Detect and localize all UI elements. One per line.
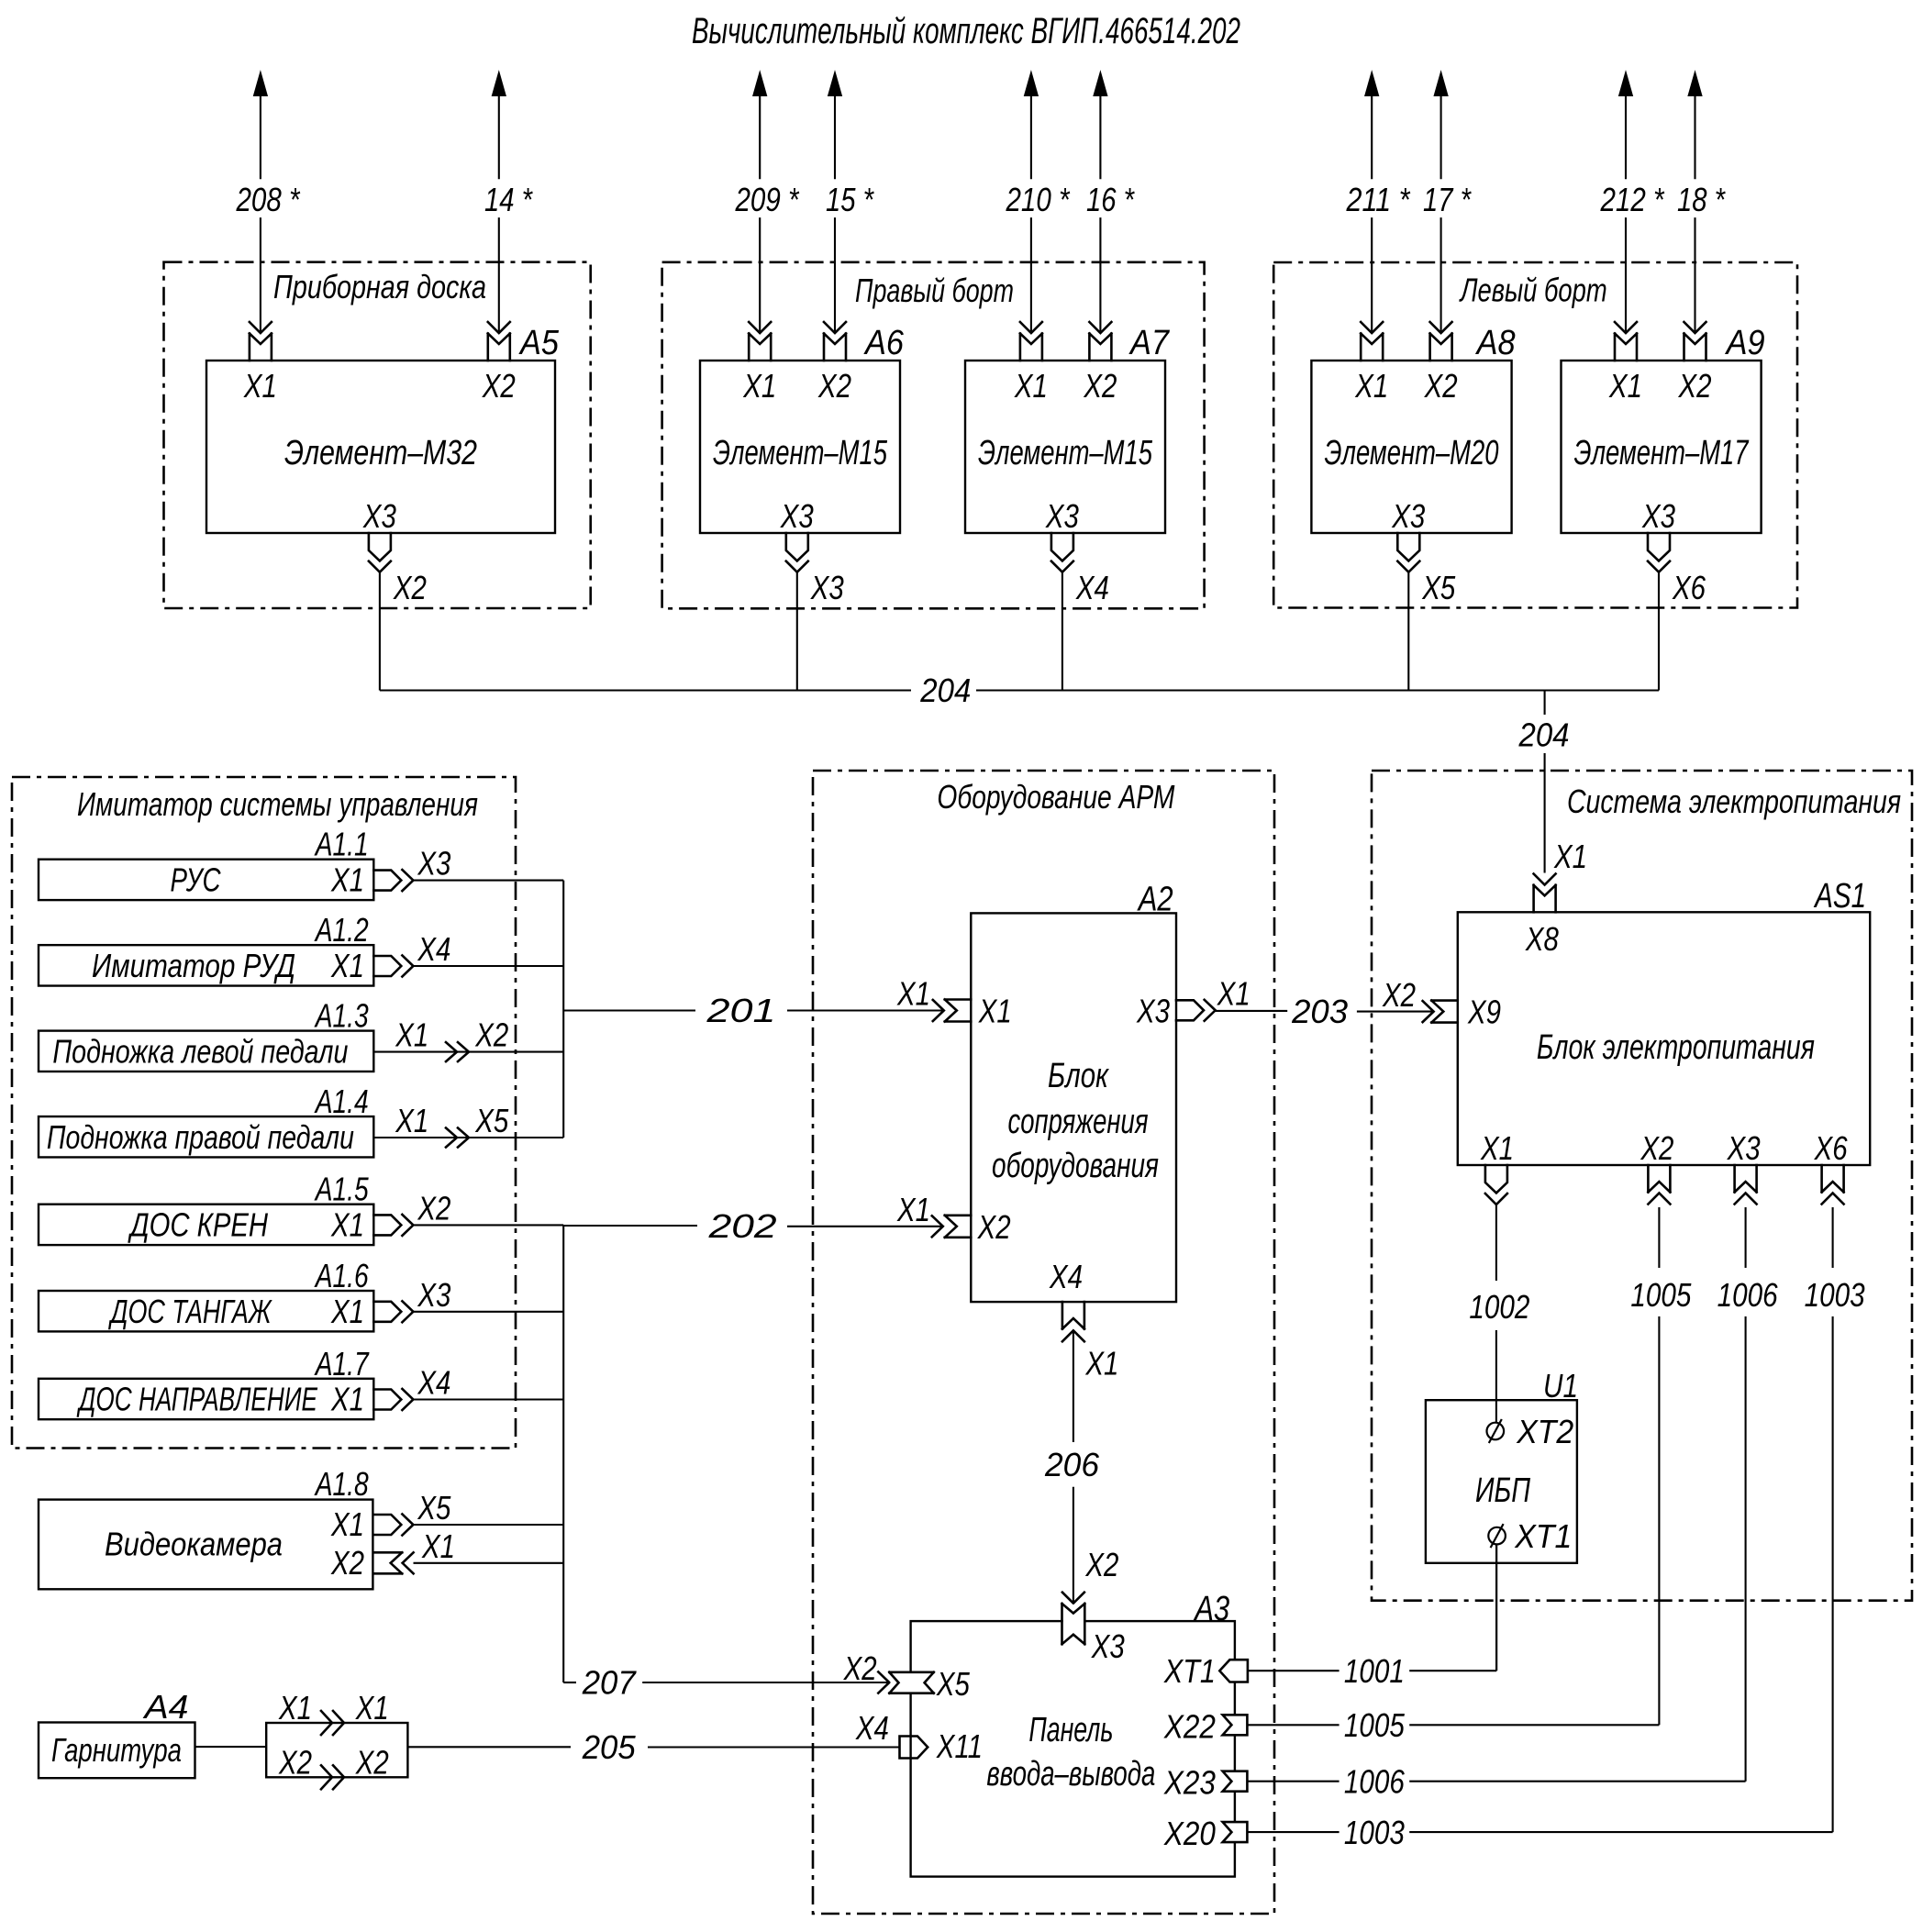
wire cable 1005 A3 X22 to AS1: [1247, 1724, 1339, 1726]
cable 18 * to computing complex (wire): [1688, 72, 1702, 96]
svg-text:X2: X2: [417, 1189, 451, 1227]
svg-text:X1: X1: [896, 1191, 930, 1228]
svg-text:X2: X2: [1640, 1129, 1674, 1167]
connector socket A2 X2: [945, 1216, 972, 1238]
svg-text:X20: X20: [1163, 1815, 1216, 1852]
cable 211 * to computing complex (wire): [1365, 72, 1379, 96]
connector plug of cable 1005 at AS1 X2: [1648, 1194, 1670, 1205]
svg-text:A1.3: A1.3: [314, 997, 369, 1035]
svg-text:1001: 1001: [1344, 1652, 1405, 1690]
connector socket of cable 1002 at AS1 X1: [1485, 1194, 1507, 1205]
svg-text:X4: X4: [417, 1364, 451, 1402]
svg-text:XT1: XT1: [1163, 1652, 1216, 1690]
cable 209 * to computing complex (wire): [753, 72, 767, 96]
svg-text:XT1: XT1: [1514, 1517, 1572, 1555]
svg-text:Гарнитура: Гарнитура: [51, 1731, 182, 1769]
svg-text:A1.8: A1.8: [314, 1465, 369, 1503]
svg-text:X6: X6: [1814, 1129, 1849, 1167]
svg-text:A1.2: A1.2: [314, 911, 369, 949]
block A1.2 Имитатор РУД: [39, 945, 373, 985]
svg-text:X4: X4: [1049, 1258, 1083, 1295]
svg-text:X3: X3: [1136, 993, 1170, 1030]
wire from A1.5 X1 to collector: [413, 1224, 563, 1226]
svg-text:1005: 1005: [1630, 1276, 1692, 1314]
connector socket X22 on A3 right edge: [1223, 1715, 1248, 1735]
cable 208 * to computing complex (wire): [253, 72, 267, 96]
svg-text:211 *: 211 *: [1346, 181, 1411, 218]
connector socket A6 X2: [824, 334, 846, 361]
svg-text:204: 204: [1518, 716, 1570, 754]
svg-text:1006: 1006: [1717, 1276, 1779, 1314]
wire bus 204 horizontal: [380, 689, 911, 691]
connector plug of cable 1003 at AS1 X6: [1822, 1194, 1844, 1205]
svg-text:A1.5: A1.5: [314, 1171, 369, 1208]
connector socket X23 on A3 right edge: [1223, 1771, 1248, 1792]
connector plug of cable 206 at A3 X3: [1062, 1593, 1084, 1604]
connector socket of cable at A1.7 X1: [402, 1389, 413, 1410]
svg-text:Имитатор системы управления: Имитатор системы управления: [77, 785, 478, 823]
svg-text:X3: X3: [362, 497, 396, 535]
block A1.8 Видеокамера: [39, 1500, 372, 1590]
cable 210 * to computing complex (wire): [1024, 72, 1038, 96]
svg-text:X1: X1: [330, 1381, 364, 1418]
block A1.5 ДОС КРЕН: [39, 1205, 373, 1245]
block U1 ИБП: [1426, 1400, 1577, 1563]
svg-text:X1: X1: [1608, 367, 1642, 405]
svg-text:X1: X1: [278, 1689, 312, 1727]
connector socket A9 X1: [1615, 334, 1637, 361]
block A7 Элемент–М15: [965, 361, 1165, 533]
connector plug A1.6 X1: [373, 1302, 401, 1322]
wire cable 1006 A3 X23 to AS1: [1247, 1781, 1339, 1782]
svg-text:X1: X1: [978, 993, 1012, 1030]
svg-text:X2: X2: [817, 367, 851, 405]
svg-text:1006: 1006: [1344, 1762, 1406, 1800]
block A8 Элемент–М20: [1311, 361, 1511, 533]
svg-text:Система электропитания: Система электропитания: [1567, 783, 1901, 820]
wire cable 1002 AS1 X1 to U1 XT2: [1495, 1205, 1497, 1281]
connector plug of cable 203 at AS1 X9: [1423, 1001, 1434, 1022]
connector socket AS1 X2: [1648, 1165, 1670, 1193]
wire from A1.2 X1 to collector: [413, 965, 563, 967]
svg-text:X1: X1: [243, 367, 277, 405]
connector plug of cable 202 at A2 X2: [932, 1216, 943, 1237]
svg-text:206: 206: [1044, 1446, 1100, 1483]
svg-text:17 *: 17 *: [1423, 181, 1472, 218]
connector plug of cable into A8 X2: [1430, 322, 1452, 333]
svg-text:207: 207: [582, 1664, 638, 1702]
connector socket of cable 204 at A8 X3: [1397, 561, 1419, 572]
svg-text:X3: X3: [780, 497, 814, 535]
connector socket A7 X2: [1089, 334, 1111, 361]
svg-text:X23: X23: [1163, 1764, 1216, 1802]
svg-text:X22: X22: [1163, 1707, 1216, 1745]
svg-text:X1: X1: [1553, 838, 1587, 875]
connector plug of cable into A9 X1: [1615, 322, 1637, 333]
svg-text:Элемент–М17: Элемент–М17: [1574, 434, 1750, 472]
svg-text:X1: X1: [1014, 367, 1048, 405]
connector socket A2 X4: [1062, 1302, 1084, 1329]
svg-text:X3: X3: [417, 845, 451, 883]
svg-text:X2: X2: [977, 1208, 1011, 1246]
svg-text:X3: X3: [1391, 497, 1425, 535]
svg-text:X2: X2: [1084, 367, 1117, 405]
connector plug of cable into A5 X1: [250, 322, 272, 333]
wire from A8 X3 to bus 204: [1407, 572, 1409, 691]
wire from A9 X3 to bus 204: [1658, 572, 1660, 691]
svg-text:X1: X1: [1085, 1345, 1119, 1382]
svg-text:Вычислительный комплекс ВГИП.4: Вычислительный комплекс ВГИП.466514.202: [692, 11, 1240, 51]
feed-through connector X5 on A3 left edge: [891, 1673, 933, 1693]
wire from A1.7 X1 to collector: [413, 1398, 563, 1400]
svg-text:203: 203: [1291, 993, 1348, 1030]
wire cable 205 coupler to A3 X11: [407, 1746, 571, 1748]
svg-text:X3: X3: [1641, 497, 1675, 535]
svg-text:1005: 1005: [1344, 1706, 1406, 1744]
svg-text:X3: X3: [810, 569, 844, 606]
svg-text:A4: A4: [142, 1688, 188, 1726]
svg-text:оборудования: оборудования: [992, 1147, 1159, 1185]
connector socket A5 X2: [488, 334, 510, 361]
svg-text:X1: X1: [355, 1689, 389, 1727]
connector socket A8 X1: [1361, 334, 1383, 361]
connector socket A1.8 X2: [374, 1552, 403, 1573]
wire cable 201 to A2 X1: [563, 1009, 695, 1011]
svg-text:X2: X2: [1424, 367, 1458, 405]
svg-text:U1: U1: [1543, 1367, 1578, 1405]
connector plug of cable 1006 at AS1 X3: [1735, 1194, 1757, 1205]
wire cable 206 A2 X4 to A3 X3: [1073, 1330, 1074, 1442]
wire from A1.6 X1 to collector: [413, 1311, 563, 1313]
connector plug A1.2 X1: [373, 956, 401, 976]
svg-text:A5: A5: [518, 324, 560, 362]
svg-text:РУС: РУС: [171, 861, 222, 899]
wire from A1.3 X1 through joint to collector: [373, 1051, 563, 1053]
block A4 Гарнитура: [39, 1723, 195, 1779]
svg-text:X1: X1: [330, 861, 364, 899]
svg-text:X4: X4: [855, 1709, 889, 1747]
svg-text:Элемент–М20: Элемент–М20: [1325, 434, 1499, 472]
connector socket of cable 204 at A9 X3: [1648, 561, 1670, 572]
connector plug of cable into A6 X1: [749, 322, 771, 333]
svg-text:18 *: 18 *: [1677, 181, 1726, 218]
block A1.7 ДОС НАПРАВЛЕНИЕ: [39, 1379, 373, 1419]
cable 16 * to computing complex (wire): [1094, 72, 1107, 96]
wire cable 203 A2 X3 to AS1 X9: [1216, 1010, 1288, 1012]
wire cable 207 to A3 X5: [563, 1682, 576, 1683]
svg-text:Подножка левой педали: Подножка левой педали: [52, 1033, 348, 1071]
detachable joint chevrons A1.4: [446, 1128, 469, 1148]
svg-text:ДОС КРЕН: ДОС КРЕН: [128, 1205, 269, 1243]
svg-text:Правый борт: Правый борт: [855, 272, 1014, 309]
svg-text:Имитатор РУД: Имитатор РУД: [92, 947, 295, 984]
svg-text:X5: X5: [474, 1102, 509, 1139]
svg-text:AS1: AS1: [1814, 877, 1867, 916]
svg-text:A6: A6: [863, 324, 905, 362]
connector plug A8 X3: [1397, 533, 1419, 561]
connector plug A1.5 X1: [373, 1215, 401, 1235]
detachable joint chevrons A1.3: [446, 1042, 469, 1061]
wire cable 1001 A3 XT1 to U1 XT1: [1248, 1670, 1339, 1671]
connector socket of cable 204 at A5 X3: [369, 561, 391, 572]
connector plug A7 X3: [1051, 533, 1073, 561]
svg-text:14 *: 14 *: [484, 181, 533, 218]
connector plug of cable into A7 X1: [1020, 322, 1042, 333]
cable 15 * to computing complex (wire): [828, 72, 842, 96]
connector plug of cable 204 at AS1 X8: [1534, 874, 1556, 885]
svg-text:X2: X2: [1085, 1546, 1119, 1583]
svg-text:Видеокамера: Видеокамера: [105, 1526, 283, 1563]
svg-text:209 *: 209 *: [735, 181, 800, 218]
block A1.4 Подножка правой педали: [39, 1116, 373, 1157]
svg-text:X5: X5: [417, 1489, 452, 1527]
connector socket A9 X2: [1684, 334, 1706, 361]
svg-text:ДОС ТАНГАЖ: ДОС ТАНГАЖ: [108, 1293, 272, 1330]
group box Левый борт: [1273, 262, 1797, 608]
connector plug A1.8 X1: [373, 1515, 401, 1535]
svg-text:A2: A2: [1137, 881, 1173, 919]
svg-text:X2: X2: [482, 367, 516, 405]
connector socket AS1 X6: [1822, 1165, 1844, 1193]
svg-text:212 *: 212 *: [1600, 181, 1665, 218]
cable 212 * to computing complex (wire): [1619, 72, 1633, 96]
svg-text:Блок электропитания: Блок электропитания: [1537, 1028, 1815, 1067]
svg-text:X1: X1: [421, 1527, 455, 1565]
wire from collector to A1.8 X2: [414, 1562, 564, 1564]
svg-text:204: 204: [919, 672, 971, 709]
feed-through connector X3 on A3 top edge: [1063, 1604, 1084, 1643]
connector socket A6 X1: [749, 334, 771, 361]
connector plug A2 X3: [1176, 1000, 1204, 1020]
connector socket of cable at A1.2 X1: [402, 956, 413, 977]
svg-text:X3: X3: [1091, 1627, 1125, 1665]
connector plug of cable into A6 X2: [824, 322, 846, 333]
svg-text:15 *: 15 *: [826, 181, 874, 218]
connector plug AS1 X1: [1485, 1165, 1507, 1194]
svg-text:ввода–вывода: ввода–вывода: [986, 1755, 1155, 1793]
svg-text:A1.1: A1.1: [314, 826, 369, 863]
svg-text:210 *: 210 *: [1006, 181, 1071, 218]
svg-text:X2: X2: [474, 1016, 508, 1054]
connector socket of cable at A1.8 X1: [402, 1515, 413, 1536]
svg-text:A1.6: A1.6: [314, 1257, 369, 1294]
coupler box of cable 205: [266, 1723, 407, 1777]
connector plug A6 X3: [786, 533, 808, 561]
svg-text:1003: 1003: [1344, 1814, 1405, 1851]
svg-text:X2: X2: [330, 1544, 364, 1582]
svg-text:202: 202: [707, 1207, 776, 1245]
svg-text:X2: X2: [1678, 367, 1712, 405]
connector plug of cable into A8 X1: [1361, 322, 1383, 333]
block A3 Панель ввода-вывода: [911, 1621, 1235, 1877]
svg-text:Подножка правой педали: Подножка правой педали: [47, 1118, 354, 1156]
wire U1 XT1 down to cable 1001: [1495, 1544, 1497, 1671]
svg-text:Элемент–М32: Элемент–М32: [284, 434, 477, 472]
connector socket of cable at A1.5 X1: [402, 1215, 413, 1236]
svg-text:X1: X1: [330, 1505, 364, 1543]
svg-text:X11: X11: [936, 1727, 983, 1765]
svg-text:X3: X3: [1727, 1129, 1761, 1167]
wire 204 drop to power system: [1544, 691, 1546, 716]
joint chevrons X1-X1 on coupler top edge: [321, 1711, 344, 1735]
svg-text:Элемент–М15: Элемент–М15: [978, 434, 1153, 472]
connector plug A5 X3: [369, 533, 391, 561]
connector plug A1.1 X1: [373, 871, 401, 891]
svg-text:X6: X6: [1672, 569, 1706, 606]
svg-text:X5: X5: [1421, 569, 1456, 606]
svg-text:X4: X4: [417, 930, 451, 968]
block A5 Элемент–М32: [206, 361, 555, 533]
cable 14 * to computing complex (wire): [492, 72, 506, 96]
svg-text:16 *: 16 *: [1086, 181, 1135, 218]
svg-text:XT2: XT2: [1516, 1413, 1573, 1450]
block A2 Блок сопряжения оборудования: [971, 913, 1176, 1302]
wire from A5 X3 to bus 204: [379, 572, 381, 691]
connector socket of cable at A1.6 X1: [402, 1301, 413, 1322]
svg-text:X3: X3: [1045, 497, 1079, 535]
terminal XT2 of U1: [1487, 1423, 1505, 1440]
connector plug of cable 206 at A2 X4: [1062, 1330, 1084, 1341]
wire from A1.4 X1 through joint to collector: [373, 1137, 563, 1138]
svg-text:A9: A9: [1725, 324, 1765, 362]
svg-text:205: 205: [582, 1728, 637, 1766]
svg-text:A3: A3: [1194, 1590, 1230, 1628]
connector plug of cable into A5 X2: [488, 322, 510, 333]
block A1.6 ДОС ТАНГАЖ: [39, 1291, 373, 1331]
svg-text:X2: X2: [393, 569, 427, 606]
svg-text:X2: X2: [1382, 976, 1416, 1014]
connector socket AS1 X8: [1534, 885, 1556, 913]
connector terminal XT1 on A3 right edge: [1219, 1660, 1248, 1682]
connector plug of cable 205 at A3 X11: [900, 1737, 928, 1759]
connector socket A8 X2: [1430, 334, 1452, 361]
svg-text:Блок: Блок: [1048, 1057, 1110, 1095]
svg-text:X1: X1: [330, 1205, 364, 1243]
terminal XT1 of U1: [1488, 1527, 1506, 1545]
svg-text:X9: X9: [1467, 994, 1501, 1031]
wire collector node for cable 201: [562, 881, 564, 1138]
svg-text:1003: 1003: [1805, 1276, 1865, 1314]
connector socket of cable 204 at A6 X3: [786, 561, 808, 572]
connector plug of cable 201 at A2 X1: [933, 1000, 944, 1021]
svg-text:X8: X8: [1525, 920, 1559, 958]
svg-text:X1: X1: [896, 975, 930, 1013]
block A6 Элемент–М15: [700, 361, 900, 533]
svg-text:X3: X3: [417, 1276, 451, 1314]
svg-text:X1: X1: [330, 947, 364, 984]
connector plug of cable at A1.8 X2: [403, 1552, 414, 1573]
svg-text:A1.7: A1.7: [314, 1345, 370, 1382]
svg-text:X4: X4: [1075, 569, 1109, 606]
connector plug A1.7 X1: [373, 1390, 401, 1410]
wire collector node for cable 202/207: [562, 1225, 564, 1682]
svg-text:Левый борт: Левый борт: [1459, 272, 1607, 309]
svg-text:X2: X2: [843, 1649, 877, 1687]
block AS1 Блок электропитания: [1458, 912, 1870, 1165]
group box Приборная доска: [164, 262, 591, 608]
connector socket A5 X1: [250, 334, 272, 361]
svg-text:201: 201: [706, 992, 775, 1029]
wire from A7 X3 to bus 204: [1062, 572, 1063, 691]
svg-text:ИБП: ИБП: [1475, 1471, 1530, 1510]
wire A4 to coupler: [195, 1746, 267, 1748]
svg-text:X5: X5: [936, 1665, 971, 1703]
svg-text:X1: X1: [395, 1016, 428, 1054]
svg-text:1002: 1002: [1469, 1288, 1529, 1326]
group box Имитатор системы управления: [12, 777, 516, 1449]
group box Правый борт: [662, 262, 1205, 609]
connector socket of cable 204 at A7 X3: [1051, 561, 1073, 572]
connector socket AS1 X3: [1735, 1165, 1757, 1193]
svg-text:ДОС НАПРАВЛЕНИЕ: ДОС НАПРАВЛЕНИЕ: [76, 1381, 318, 1418]
svg-text:Оборудование АРМ: Оборудование АРМ: [937, 778, 1174, 816]
wire from A6 X3 to bus 204: [796, 572, 798, 691]
cable 17 * to computing complex (wire): [1434, 72, 1448, 96]
connector plug of cable 207 at A3 X5: [878, 1672, 889, 1693]
svg-text:X1: X1: [1480, 1129, 1514, 1167]
svg-text:X1: X1: [330, 1293, 364, 1330]
svg-text:X1: X1: [395, 1102, 428, 1139]
connector plug of cable into A9 X2: [1684, 322, 1706, 333]
wire cable 202 to A2 X2: [563, 1225, 697, 1227]
svg-text:X1: X1: [742, 367, 776, 405]
connector socket A2 X1: [945, 1000, 972, 1022]
group box Система электропитания: [1372, 771, 1912, 1601]
connector plug A9 X3: [1648, 533, 1670, 561]
joint chevrons X2-X2 on coupler bottom edge: [321, 1765, 344, 1789]
svg-text:A8: A8: [1475, 324, 1516, 362]
connector socket AS1 X9: [1431, 1001, 1458, 1023]
svg-text:X2: X2: [278, 1743, 312, 1781]
block A1.3 Подножка левой педали: [39, 1031, 373, 1071]
block A9 Элемент–М17: [1562, 361, 1762, 533]
svg-text:X1: X1: [1217, 975, 1251, 1013]
connector socket of cable at A1.1 X1: [402, 870, 413, 891]
svg-text:208 *: 208 *: [236, 181, 301, 218]
connector socket A7 X1: [1020, 334, 1042, 361]
svg-text:X2: X2: [355, 1743, 389, 1781]
group box Оборудование АРМ: [813, 771, 1274, 1914]
svg-text:Элемент–М15: Элемент–М15: [713, 434, 888, 472]
wire from A1.1 X1 to collector: [413, 880, 563, 882]
svg-text:A7: A7: [1128, 324, 1170, 362]
block A1.1 РУС: [39, 860, 373, 900]
connector socket of cable 203 at A2 X3: [1205, 1000, 1216, 1021]
wire cable 1003 A3 X20 to AS1: [1247, 1831, 1339, 1833]
svg-text:X1: X1: [1354, 367, 1388, 405]
svg-text:Панель: Панель: [1028, 1711, 1113, 1749]
svg-text:сопряжения: сопряжения: [1008, 1103, 1149, 1141]
svg-text:A1.4: A1.4: [314, 1083, 369, 1120]
connector socket X20 on A3 right edge: [1223, 1822, 1248, 1842]
connector plug of cable into A7 X2: [1089, 322, 1111, 333]
svg-text:Приборная доска: Приборная доска: [273, 268, 486, 305]
wire from A1.8 X1 to collector: [413, 1524, 563, 1526]
